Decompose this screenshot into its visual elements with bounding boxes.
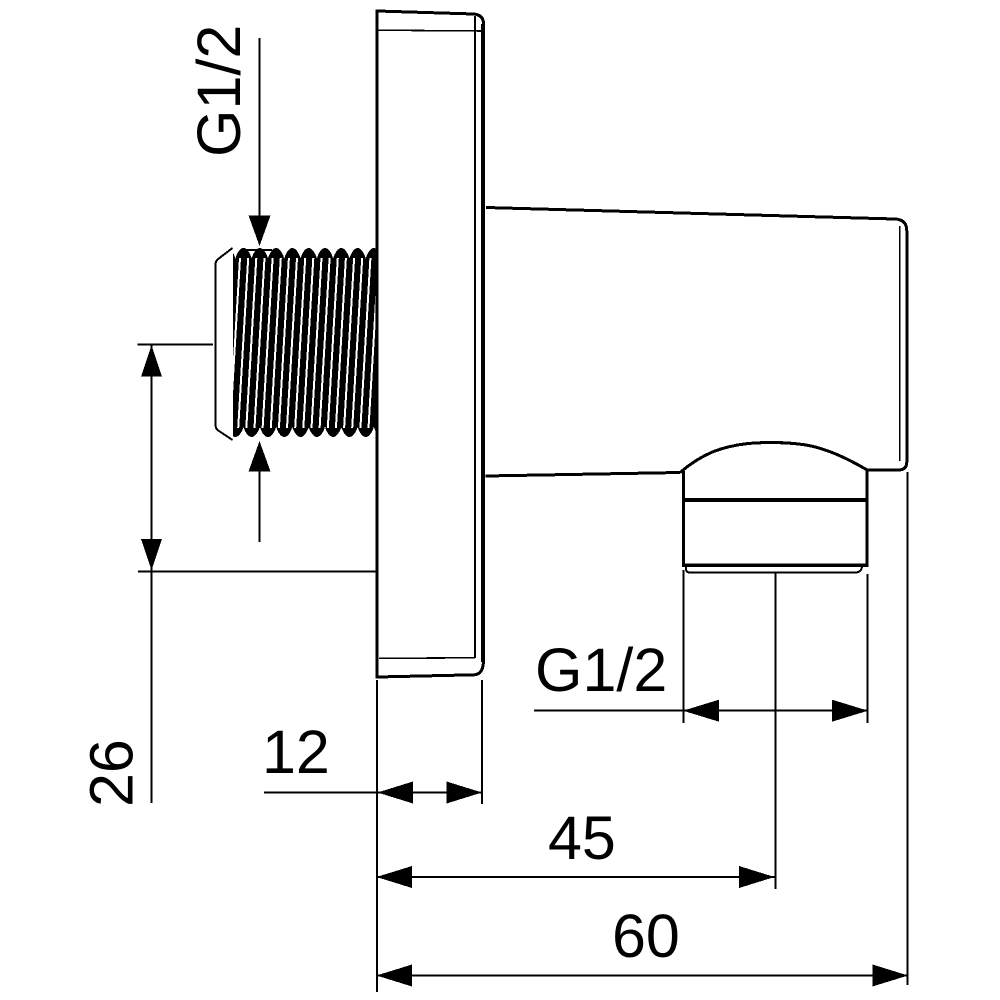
outlet nut bottom lip xyxy=(686,567,862,573)
outlet nut xyxy=(682,469,868,568)
svg-text:26: 26 xyxy=(78,739,146,807)
dimension 60: line with arrows xyxy=(377,965,909,987)
body (spout) outline xyxy=(486,208,907,477)
dimension 26: upper extension line at thread axis xyxy=(138,344,214,346)
dimension G1/2 lower: line with arrows xyxy=(534,700,868,722)
body inner right line xyxy=(899,226,901,461)
dimension 26: lower extension line at outlet bottom xyxy=(138,571,378,573)
svg-text:12: 12 xyxy=(262,718,330,786)
dimension 45: line with arrows xyxy=(377,866,775,888)
thread G1/2 body xyxy=(230,248,395,437)
svg-text:G1/2: G1/2 xyxy=(185,25,253,157)
svg-text:45: 45 xyxy=(548,804,616,872)
hose hump xyxy=(680,443,867,473)
dimension G1/2 lower: extension lines xyxy=(683,570,867,723)
dimension 12: right extension line xyxy=(481,680,483,804)
svg-text:G1/2: G1/2 xyxy=(535,636,667,704)
dimension 12: line with arrows xyxy=(264,782,482,804)
dimension leader G1/2 top: line and down arrow xyxy=(246,38,272,250)
dimension 26: vertical line with outward arrows xyxy=(141,345,162,803)
dimension 45: centre extension line xyxy=(775,573,777,890)
wall plate outer outline xyxy=(377,11,484,677)
svg-text:60: 60 xyxy=(612,902,680,970)
dimension 60: extension lines xyxy=(377,472,908,992)
wall plate inner face lines xyxy=(378,16,483,658)
thread end cap xyxy=(216,248,233,440)
dimension leader G1/2 top: lower up-arrow below thread xyxy=(249,441,271,542)
